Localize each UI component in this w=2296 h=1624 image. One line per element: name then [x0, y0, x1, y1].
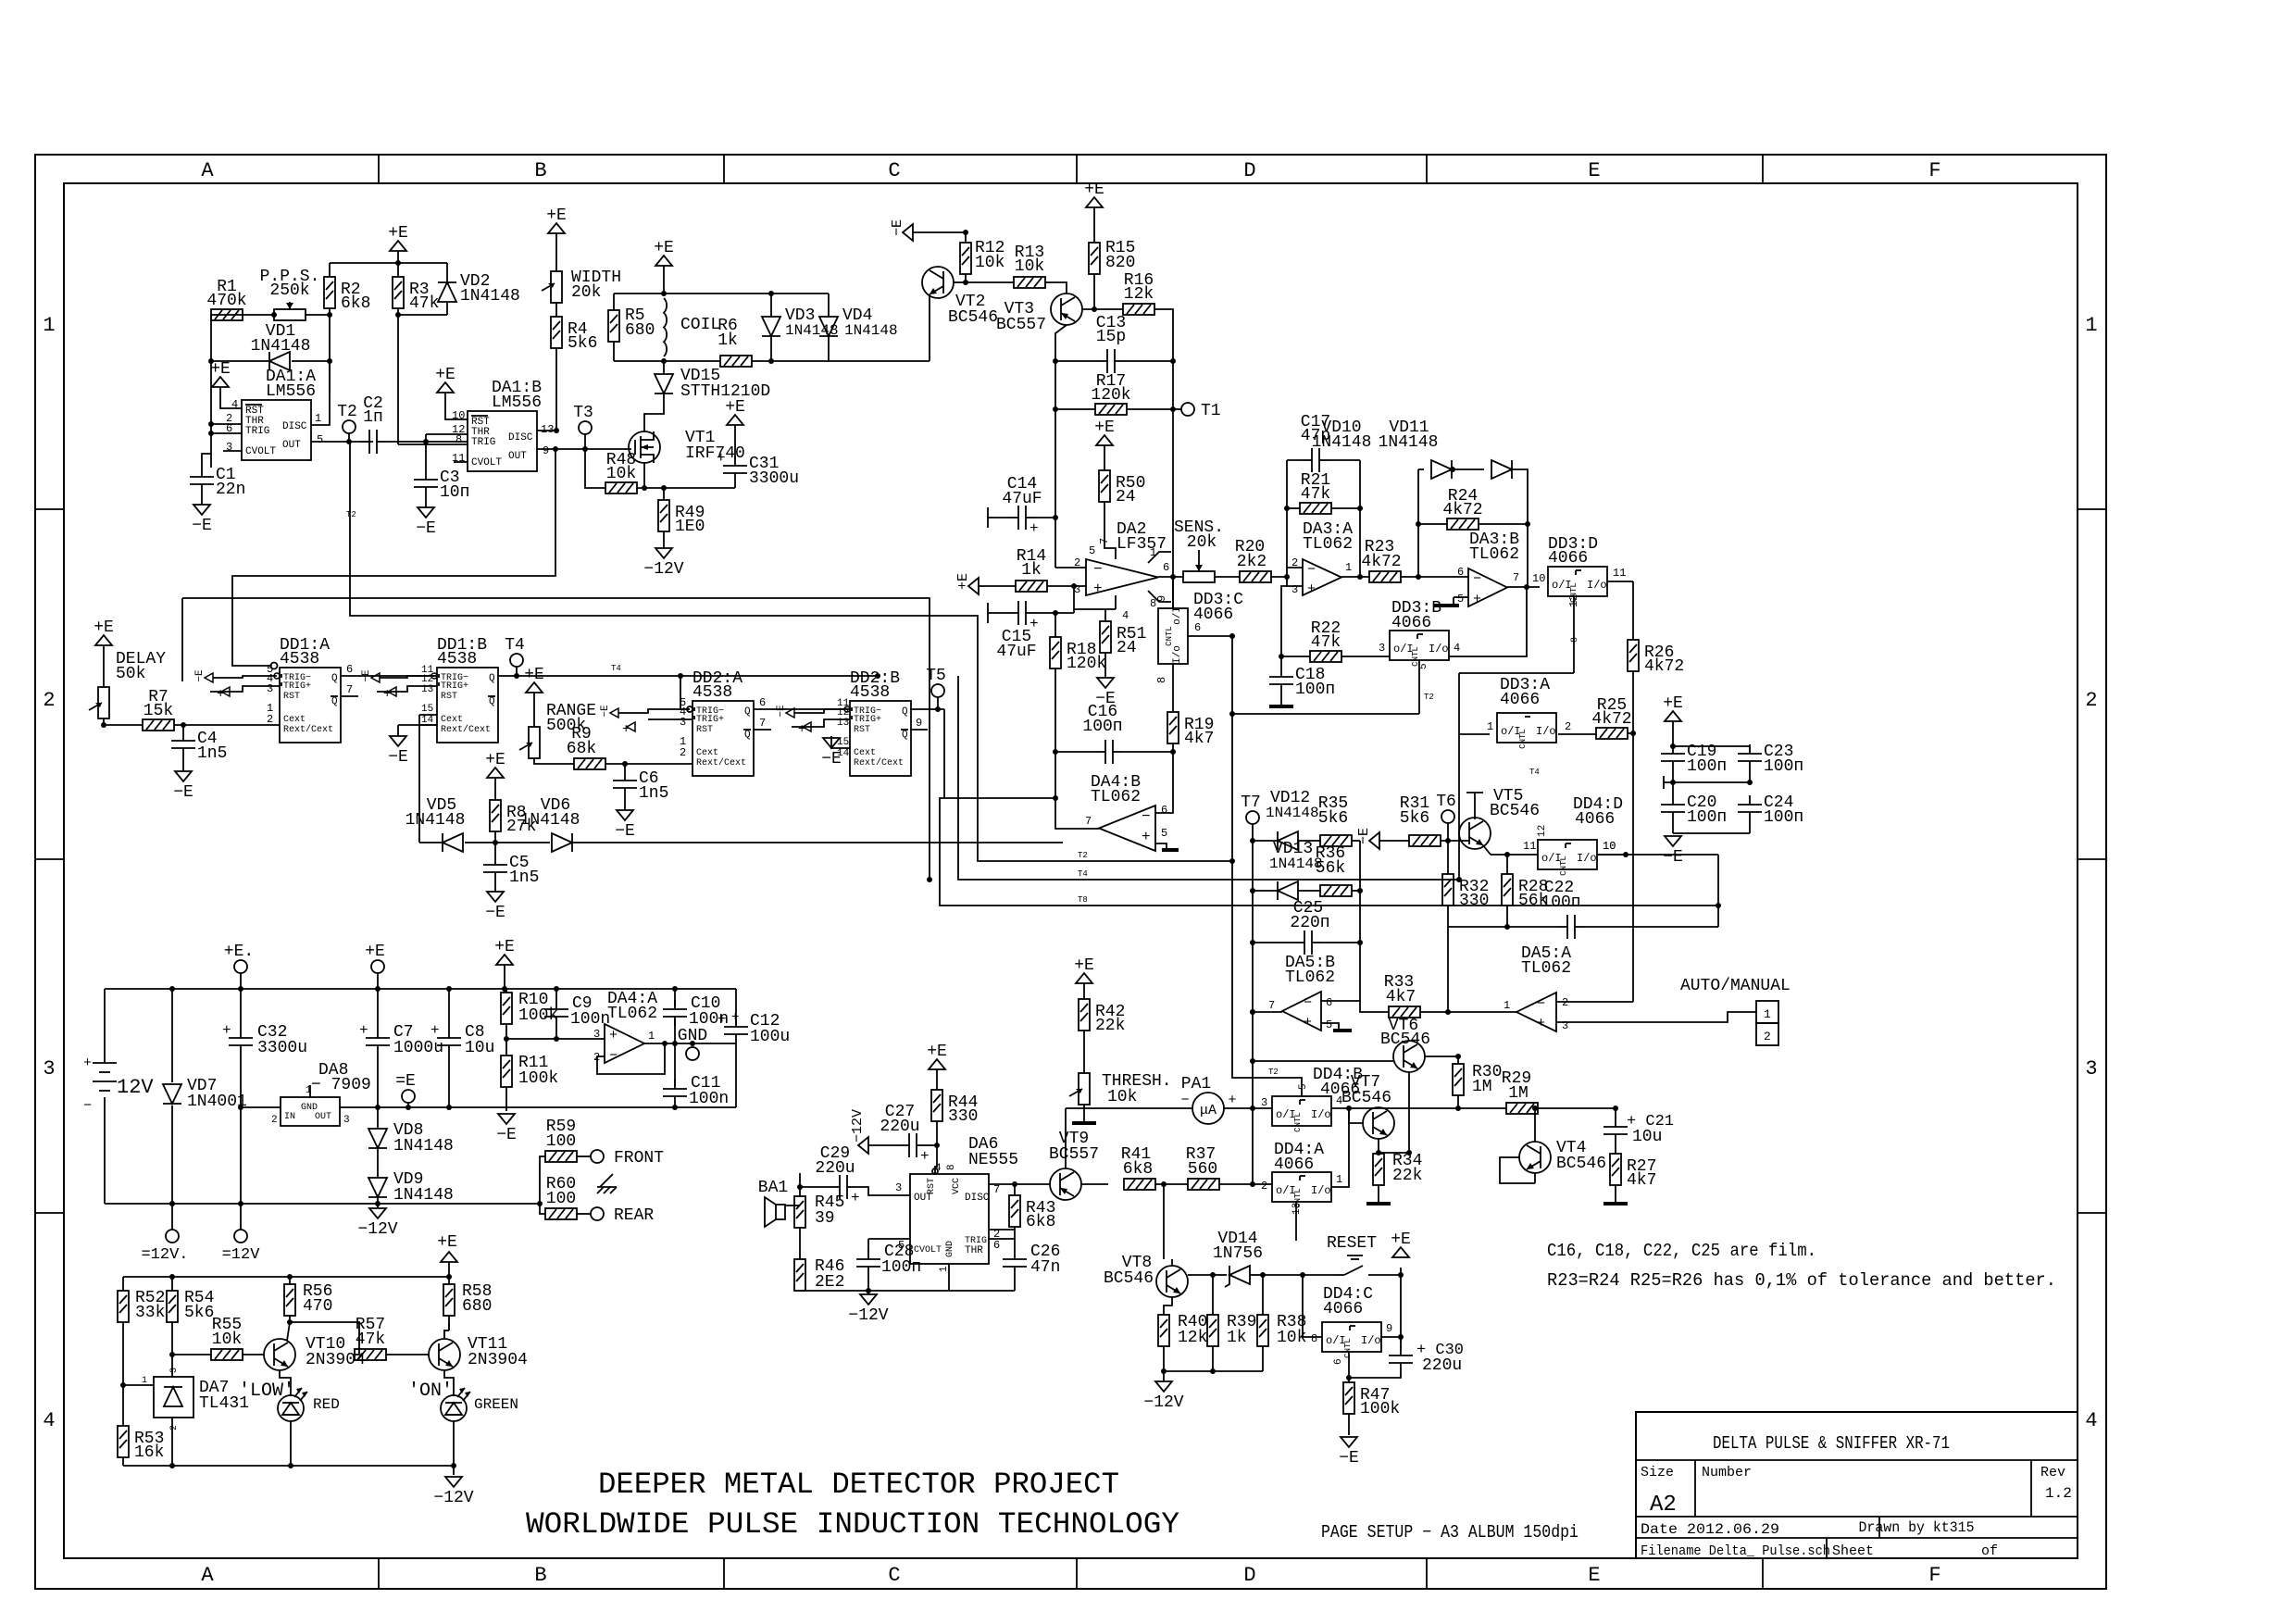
svg-text:+E: +E	[94, 618, 114, 637]
svg-text:−E: −E	[416, 519, 436, 538]
svg-text:100: 100	[546, 1132, 576, 1151]
svg-text:1n5: 1n5	[509, 868, 539, 887]
svg-text:6: 6	[1161, 804, 1167, 817]
svg-text:T4: T4	[1529, 768, 1540, 777]
svg-text:GND: GND	[945, 1241, 955, 1257]
svg-text:T6: T6	[1436, 793, 1456, 811]
svg-text:22n: 22n	[216, 481, 245, 499]
svg-text:22k: 22k	[1392, 1167, 1422, 1185]
svg-text:TL062: TL062	[1521, 959, 1571, 978]
svg-text:BC557: BC557	[1049, 1145, 1099, 1164]
svg-text:BC546: BC546	[1556, 1155, 1606, 1173]
svg-text:CNTL: CNTL	[1293, 1112, 1303, 1132]
svg-text:T2: T2	[1424, 693, 1434, 702]
svg-text:Size: Size	[1641, 1465, 1674, 1480]
svg-text:BA1: BA1	[758, 1179, 788, 1197]
svg-text:11: 11	[1613, 567, 1626, 580]
svg-text:WORLDWIDE PULSE INDUCTION TECH: WORLDWIDE PULSE INDUCTION TECHNOLOGY	[526, 1507, 1179, 1542]
svg-text:TRIG+: TRIG+	[441, 681, 468, 692]
svg-text:T8: T8	[1078, 895, 1088, 905]
svg-text:−E: −E	[485, 904, 505, 922]
svg-text:4066: 4066	[1575, 810, 1615, 829]
svg-text:+E: +E	[210, 360, 231, 379]
svg-text:A: A	[201, 1564, 214, 1587]
svg-text:of: of	[1981, 1543, 1998, 1559]
svg-text:+E: +E	[654, 239, 674, 257]
svg-text:1n5: 1n5	[197, 744, 227, 763]
svg-text:−E: −E	[1663, 848, 1683, 867]
svg-text:2: 2	[1565, 720, 1571, 733]
svg-text:7: 7	[993, 1183, 1000, 1196]
svg-text:5: 5	[1326, 1018, 1332, 1031]
svg-text:B: B	[534, 1564, 546, 1587]
svg-text:4538: 4538	[850, 683, 890, 702]
svg-text:−: −	[1180, 1093, 1189, 1108]
svg-text:3: 3	[895, 1181, 902, 1194]
svg-text:6k8: 6k8	[1026, 1213, 1055, 1231]
svg-text:120k: 120k	[1067, 655, 1106, 673]
svg-text:1: 1	[1764, 1007, 1771, 1021]
svg-text:2: 2	[1562, 996, 1568, 1009]
svg-text:1: 1	[306, 1085, 312, 1096]
svg-text:1E0: 1E0	[675, 518, 705, 536]
svg-text:TL062: TL062	[1303, 535, 1353, 554]
svg-text:4: 4	[2085, 1409, 2097, 1432]
svg-text:Cext: Cext	[441, 715, 463, 725]
svg-text:+E: +E	[435, 366, 455, 384]
svg-text:−E: −E	[388, 748, 408, 767]
svg-text:15k: 15k	[143, 702, 173, 720]
svg-text:7: 7	[1098, 538, 1111, 544]
svg-text:100n: 100n	[689, 1090, 729, 1108]
svg-text:820: 820	[1105, 254, 1135, 272]
svg-text:+: +	[717, 450, 726, 467]
svg-text:−12V: −12V	[357, 1220, 397, 1239]
svg-text:E: E	[1588, 1564, 1600, 1587]
svg-text:DISC: DISC	[508, 432, 533, 443]
svg-text:220u: 220u	[880, 1118, 919, 1136]
svg-text:47k: 47k	[1301, 485, 1330, 504]
svg-text:TRIG+: TRIG+	[854, 715, 881, 725]
svg-text:4k72: 4k72	[1361, 553, 1401, 571]
svg-text:CNTL: CNTL	[1518, 729, 1528, 749]
svg-text:1N4001: 1N4001	[187, 1093, 247, 1111]
svg-text:1: 1	[648, 1030, 655, 1043]
svg-text:7: 7	[1268, 999, 1275, 1012]
svg-text:IRF740: IRF740	[685, 444, 745, 463]
svg-text:100п: 100п	[1764, 808, 1803, 827]
svg-text:4k7: 4k7	[1627, 1171, 1656, 1190]
svg-text:330: 330	[1459, 892, 1489, 910]
svg-text:20k: 20k	[571, 283, 601, 302]
svg-text:+: +	[430, 1022, 440, 1039]
svg-text:3: 3	[593, 1028, 600, 1041]
svg-text:20k: 20k	[1187, 533, 1217, 552]
svg-text:−E: −E	[194, 669, 206, 682]
svg-text:1п: 1п	[363, 408, 383, 427]
svg-text:CVOLT: CVOLT	[245, 446, 276, 457]
svg-text:5k6: 5k6	[1318, 809, 1348, 828]
svg-text:T2: T2	[337, 403, 357, 421]
svg-text:−E: −E	[361, 669, 372, 682]
svg-text:56k: 56k	[1316, 859, 1345, 878]
svg-text:100k: 100k	[518, 1069, 558, 1088]
svg-text:47k: 47k	[1311, 633, 1341, 652]
svg-text:220п: 220п	[1290, 914, 1329, 932]
svg-text:5: 5	[1457, 593, 1464, 606]
svg-text:T2: T2	[1268, 1068, 1279, 1077]
svg-text:7: 7	[1085, 815, 1092, 828]
svg-text:13: 13	[541, 423, 554, 436]
svg-text:6: 6	[993, 1239, 1000, 1252]
svg-text:3: 3	[343, 1115, 350, 1126]
svg-text:9: 9	[1155, 595, 1168, 602]
svg-text:−: −	[1093, 561, 1103, 578]
svg-text:7: 7	[346, 683, 353, 696]
svg-text:D: D	[1243, 159, 1255, 182]
svg-text:100п: 100п	[1764, 757, 1803, 776]
svg-text:100п: 100п	[1687, 757, 1727, 776]
svg-text:12k: 12k	[1178, 1329, 1207, 1347]
svg-text:C: C	[888, 1564, 900, 1587]
svg-text:330: 330	[948, 1107, 978, 1126]
svg-text:OUT: OUT	[315, 1112, 331, 1122]
svg-text:DELTA PULSE & SNIFFER XR-71: DELTA PULSE & SNIFFER XR-71	[1713, 1433, 1950, 1454]
svg-text:220u: 220u	[815, 1159, 855, 1178]
svg-text:GREEN: GREEN	[474, 1396, 518, 1413]
svg-text:+E: +E	[1074, 956, 1094, 975]
svg-text:10k: 10k	[606, 465, 636, 483]
svg-text:I/o: I/o	[1577, 852, 1597, 865]
svg-text:12V: 12V	[117, 1076, 154, 1099]
svg-text:4k7: 4k7	[1386, 988, 1416, 1006]
svg-text:Cext: Cext	[696, 748, 718, 758]
svg-text:1k: 1k	[1021, 561, 1042, 580]
svg-text:+: +	[851, 1190, 860, 1206]
svg-text:6: 6	[1163, 561, 1169, 574]
svg-text:680: 680	[625, 321, 655, 340]
svg-text:1N756: 1N756	[1213, 1244, 1263, 1263]
svg-text:2N3904: 2N3904	[468, 1351, 528, 1369]
svg-text:−: −	[1307, 562, 1316, 578]
svg-text:T7: T7	[1241, 793, 1261, 812]
svg-text:I/o: I/o	[1361, 1334, 1381, 1347]
svg-text:+E: +E	[485, 751, 505, 769]
svg-text:+: +	[217, 687, 224, 702]
svg-text:5: 5	[317, 433, 323, 446]
svg-text:I/o: I/o	[1172, 645, 1183, 664]
svg-text:−E: −E	[776, 705, 787, 718]
svg-text:− 7909: − 7909	[311, 1076, 371, 1094]
svg-text:470: 470	[303, 1297, 332, 1316]
svg-text:o/I: o/I	[1172, 606, 1183, 625]
svg-text:−: −	[1304, 995, 1312, 1011]
svg-text:T4: T4	[1078, 869, 1088, 879]
svg-text:+E: +E	[365, 943, 385, 961]
svg-text:RST: RST	[441, 692, 457, 702]
svg-text:I/o: I/o	[1311, 1184, 1331, 1197]
svg-text:33k: 33k	[135, 1304, 165, 1322]
svg-text:T3: T3	[573, 404, 593, 422]
svg-text:+: +	[383, 687, 391, 702]
svg-text:−E: −E	[192, 517, 212, 535]
svg-text:T2: T2	[1078, 851, 1088, 860]
svg-text:2E2: 2E2	[815, 1273, 844, 1292]
svg-text:LF357: LF357	[1117, 535, 1167, 554]
svg-text:−12V: −12V	[643, 560, 683, 579]
svg-text:47k: 47k	[409, 294, 439, 313]
svg-text:4: 4	[43, 1409, 55, 1432]
svg-text:10k: 10k	[1015, 257, 1044, 276]
svg-text:3: 3	[1379, 642, 1385, 655]
svg-text:3: 3	[169, 1368, 180, 1373]
svg-text:DISC: DISC	[282, 421, 307, 432]
svg-text:250k: 250k	[269, 281, 309, 300]
svg-text:1N4148: 1N4148	[520, 811, 580, 830]
svg-text:+E: +E	[1663, 694, 1683, 713]
svg-text:VCC: VCC	[952, 1178, 962, 1194]
svg-text:+: +	[1228, 1093, 1236, 1108]
svg-text:100k: 100k	[1360, 1400, 1400, 1418]
svg-text:2: 2	[169, 1425, 180, 1430]
svg-text:4066: 4066	[1274, 1156, 1314, 1174]
svg-text:TL062: TL062	[1091, 788, 1141, 806]
svg-text:−: −	[1473, 571, 1481, 587]
svg-text:I/o: I/o	[1587, 579, 1607, 592]
svg-text:BC546: BC546	[1380, 1031, 1430, 1049]
svg-text:1: 1	[1345, 561, 1352, 574]
svg-text:100: 100	[546, 1190, 576, 1208]
svg-text:−E: −E	[1339, 1449, 1359, 1468]
svg-text:1M: 1M	[1508, 1084, 1529, 1103]
svg-text:7: 7	[1513, 571, 1519, 584]
svg-text:50k: 50k	[116, 665, 145, 683]
svg-text:24: 24	[1117, 639, 1137, 657]
svg-text:3: 3	[1261, 1096, 1267, 1109]
svg-text:2k2: 2k2	[1237, 553, 1267, 571]
svg-text:RESET: RESET	[1327, 1234, 1377, 1253]
svg-text:CVOLT: CVOLT	[471, 457, 502, 468]
svg-text:1: 1	[315, 412, 321, 425]
svg-text:+E: +E	[1391, 1230, 1411, 1249]
svg-text:C16, C18, C22, C25 are film.: C16, C18, C22, C25 are film.	[1547, 1241, 1816, 1261]
svg-text:5k6: 5k6	[568, 334, 597, 353]
svg-text:13: 13	[421, 684, 433, 695]
svg-text:DEEPER METAL DETECTOR PROJECT: DEEPER METAL DETECTOR PROJECT	[598, 1468, 1119, 1502]
svg-text:1: 1	[1504, 999, 1510, 1012]
svg-text:TL062: TL062	[1285, 968, 1335, 987]
svg-text:Rext/Cext: Rext/Cext	[283, 724, 333, 735]
svg-text:220u: 220u	[1422, 1356, 1462, 1375]
svg-text:39: 39	[815, 1209, 835, 1228]
svg-text:8: 8	[1155, 677, 1168, 683]
svg-text:5k6: 5k6	[1400, 809, 1429, 828]
svg-text:15: 15	[421, 704, 433, 715]
svg-text:−: −	[609, 1048, 618, 1064]
svg-text:+E: +E	[546, 206, 567, 225]
svg-text:3: 3	[680, 716, 686, 729]
svg-text:120k: 120k	[1091, 386, 1130, 405]
svg-text:Q: Q	[902, 730, 908, 741]
svg-text:BC546: BC546	[1104, 1269, 1154, 1288]
svg-text:CVOLT: CVOLT	[914, 1245, 942, 1255]
svg-text:R23=R24 R25=R26 has 0,1% of to: R23=R24 R25=R26 has 0,1% of tolerance an…	[1547, 1270, 2056, 1291]
svg-text:1n5: 1n5	[639, 784, 668, 803]
svg-text:RST: RST	[854, 725, 870, 735]
svg-text:−E: −E	[890, 219, 905, 236]
svg-text:9: 9	[916, 717, 922, 730]
svg-text:+: +	[1537, 1016, 1545, 1031]
svg-text:−: −	[1142, 808, 1151, 825]
svg-text:TRIG+: TRIG+	[283, 681, 311, 692]
svg-text:+: +	[1307, 581, 1316, 597]
svg-text:4k72: 4k72	[1591, 710, 1631, 729]
svg-text:1k: 1k	[1227, 1329, 1247, 1347]
svg-text:68k: 68k	[567, 740, 596, 758]
svg-text:+E: +E	[524, 666, 544, 684]
svg-text:'LOW': 'LOW'	[239, 1380, 294, 1402]
svg-text:1N4148: 1N4148	[393, 1137, 454, 1156]
svg-text:+: +	[1093, 581, 1103, 597]
svg-text:TL062: TL062	[1469, 545, 1519, 564]
svg-text:6: 6	[1194, 621, 1201, 634]
svg-text:6k8: 6k8	[1123, 1160, 1153, 1179]
svg-text:+: +	[83, 1056, 92, 1071]
svg-text:16k: 16k	[134, 1443, 164, 1462]
svg-text:1: 1	[142, 1376, 147, 1386]
svg-text:3300u: 3300u	[257, 1039, 307, 1057]
svg-text:PA1: PA1	[1181, 1075, 1211, 1093]
svg-text:4k72: 4k72	[1442, 501, 1482, 519]
svg-text:+: +	[622, 722, 630, 737]
svg-text:15p: 15p	[1096, 328, 1126, 346]
svg-text:I/o: I/o	[1429, 643, 1449, 656]
svg-text:+: +	[731, 1010, 739, 1025]
svg-text:+E: +E	[1094, 418, 1115, 437]
svg-text:TRIG: TRIG	[245, 426, 269, 437]
svg-text:100п: 100п	[1295, 681, 1335, 699]
svg-text:2: 2	[271, 1115, 278, 1126]
svg-text:Number: Number	[1702, 1465, 1752, 1480]
svg-text:4538: 4538	[437, 650, 477, 668]
svg-text:AUTO/MANUAL: AUTO/MANUAL	[1680, 977, 1791, 995]
svg-text:Rext/Cext: Rext/Cext	[696, 757, 746, 768]
svg-text:2: 2	[267, 713, 273, 726]
svg-text:11: 11	[1523, 840, 1536, 853]
svg-text:NE555: NE555	[968, 1151, 1018, 1169]
svg-text:TRIG+: TRIG+	[696, 715, 724, 725]
svg-text:6: 6	[1457, 566, 1464, 579]
svg-text:TL062: TL062	[607, 1005, 657, 1023]
svg-text:Q: Q	[902, 706, 908, 718]
svg-text:Rext/Cext: Rext/Cext	[854, 757, 904, 768]
svg-text:CNTL: CNTL	[1165, 626, 1174, 646]
svg-text:12: 12	[1537, 825, 1548, 837]
svg-text:8: 8	[1311, 1332, 1317, 1345]
svg-text:THR: THR	[965, 1245, 983, 1256]
svg-text:1N4148: 1N4148	[251, 337, 311, 356]
svg-text:E: E	[1588, 159, 1600, 182]
svg-text:8: 8	[946, 1164, 957, 1170]
svg-text:12k: 12k	[1124, 285, 1154, 304]
svg-text:+: +	[1473, 592, 1481, 607]
svg-text:100u: 100u	[750, 1028, 790, 1046]
svg-text:5: 5	[1089, 544, 1095, 557]
svg-text:COIL: COIL	[680, 316, 720, 334]
svg-text:Q: Q	[489, 696, 495, 707]
svg-text:1M: 1M	[1472, 1078, 1492, 1096]
svg-text:+E: +E	[494, 938, 515, 956]
svg-text:BC546: BC546	[1490, 802, 1540, 820]
svg-text:470k: 470k	[206, 292, 246, 310]
svg-text:OUT: OUT	[508, 451, 527, 462]
svg-text:13: 13	[837, 718, 849, 729]
svg-text:47uF: 47uF	[1002, 490, 1042, 508]
svg-text:F: F	[1928, 1564, 1940, 1587]
svg-text:24: 24	[1116, 488, 1136, 506]
svg-text:REAR: REAR	[614, 1206, 654, 1225]
svg-text:−E: −E	[496, 1126, 517, 1144]
svg-text:T2: T2	[346, 510, 356, 519]
svg-text:Q: Q	[744, 706, 751, 718]
svg-text:+: +	[609, 1028, 618, 1043]
svg-text:10k: 10k	[212, 1330, 242, 1349]
svg-text:RST: RST	[283, 692, 300, 702]
svg-text:4538: 4538	[280, 650, 319, 668]
svg-text:LM556: LM556	[266, 382, 316, 401]
svg-text:A: A	[201, 159, 214, 182]
svg-text:4: 4	[1122, 609, 1129, 622]
svg-text:1N4148: 1N4148	[406, 811, 466, 830]
svg-text:D: D	[1243, 1564, 1255, 1587]
svg-text:−: −	[1537, 996, 1545, 1012]
svg-text:1N4148: 1N4148	[460, 287, 520, 306]
svg-text:F: F	[1928, 159, 1940, 182]
svg-text:+E: +E	[955, 573, 971, 590]
svg-text:−E: −E	[615, 822, 635, 841]
svg-text:8: 8	[1570, 637, 1580, 643]
svg-text:IN: IN	[284, 1112, 295, 1122]
svg-text:560: 560	[1188, 1160, 1217, 1179]
svg-text:B: B	[534, 159, 546, 182]
svg-text:CNTL: CNTL	[1559, 856, 1568, 876]
svg-text:−E: −E	[600, 705, 611, 718]
svg-text:+E: +E	[927, 1043, 947, 1061]
svg-text:PAGE SETUP − A3 ALBUM 150dpi: PAGE SETUP − A3 ALBUM 150dpi	[1321, 1522, 1578, 1543]
svg-text:+E.: +E.	[224, 943, 254, 961]
svg-text:1: 1	[2085, 314, 2097, 337]
svg-text:2: 2	[680, 746, 686, 759]
svg-text:7: 7	[759, 717, 766, 730]
svg-text:2: 2	[1764, 1030, 1771, 1043]
svg-text:−12V: −12V	[433, 1489, 473, 1507]
svg-text:BC546: BC546	[1341, 1089, 1391, 1107]
svg-text:6: 6	[1326, 996, 1332, 1009]
svg-text:100п: 100п	[1687, 808, 1727, 827]
svg-text:5: 5	[1418, 663, 1429, 669]
svg-text:22k: 22k	[1095, 1017, 1125, 1035]
svg-text:4538: 4538	[693, 683, 732, 702]
svg-text:+E: +E	[725, 398, 745, 417]
svg-text:10k: 10k	[975, 254, 1004, 272]
svg-text:−E: −E	[821, 750, 842, 768]
svg-text:4066: 4066	[1500, 691, 1540, 709]
svg-text:10п: 10п	[440, 483, 469, 502]
svg-text:3: 3	[2085, 1057, 2097, 1081]
svg-text:+E: +E	[388, 224, 408, 243]
svg-text:+: +	[222, 1022, 231, 1039]
svg-text:100п: 100п	[881, 1258, 921, 1277]
